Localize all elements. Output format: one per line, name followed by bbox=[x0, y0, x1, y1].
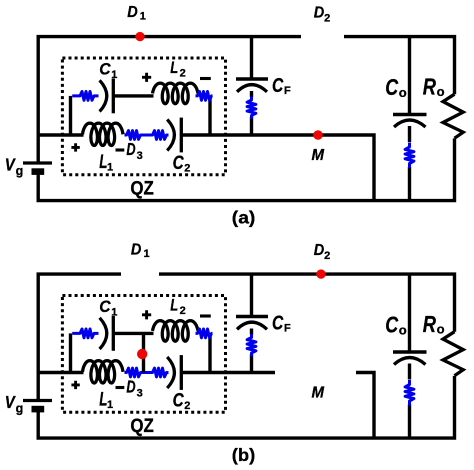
svg-text:o: o bbox=[437, 84, 445, 99]
svg-text:C: C bbox=[173, 153, 184, 174]
svg-text:o: o bbox=[399, 85, 407, 100]
svg-text:2: 2 bbox=[324, 13, 330, 25]
svg-text:D: D bbox=[314, 242, 325, 259]
svg-text:V: V bbox=[5, 154, 16, 174]
svg-text:C: C bbox=[272, 312, 284, 334]
svg-text:L: L bbox=[170, 296, 178, 315]
svg-text:F: F bbox=[284, 323, 291, 335]
svg-text:D: D bbox=[127, 4, 138, 21]
svg-text:3: 3 bbox=[137, 150, 143, 162]
svg-text:2: 2 bbox=[184, 400, 190, 412]
svg-text:D: D bbox=[314, 5, 325, 22]
svg-text:R: R bbox=[423, 73, 436, 99]
svg-text:2: 2 bbox=[180, 68, 186, 80]
svg-text:M: M bbox=[312, 385, 325, 402]
svg-text:(a): (a) bbox=[232, 208, 256, 228]
svg-text:L: L bbox=[170, 58, 178, 77]
svg-text:g: g bbox=[16, 164, 24, 178]
svg-text:D: D bbox=[126, 139, 135, 159]
svg-text:o: o bbox=[399, 322, 407, 337]
svg-text:1: 1 bbox=[107, 399, 113, 411]
svg-text:D: D bbox=[131, 242, 142, 259]
svg-text:QZ: QZ bbox=[130, 416, 154, 437]
svg-text:1: 1 bbox=[107, 161, 113, 173]
svg-text:C: C bbox=[99, 59, 111, 78]
svg-text:C: C bbox=[385, 74, 398, 100]
svg-text:F: F bbox=[284, 85, 291, 97]
svg-text:1: 1 bbox=[144, 248, 150, 260]
svg-text:2: 2 bbox=[184, 163, 190, 175]
svg-text:M: M bbox=[312, 147, 325, 164]
svg-text:2: 2 bbox=[180, 305, 186, 317]
svg-text:D: D bbox=[126, 377, 135, 397]
svg-text:1: 1 bbox=[111, 307, 117, 319]
svg-text:V: V bbox=[5, 392, 16, 412]
svg-text:2: 2 bbox=[324, 250, 330, 262]
svg-text:C: C bbox=[173, 391, 184, 412]
svg-text:(b): (b) bbox=[232, 445, 256, 465]
svg-text:C: C bbox=[99, 297, 111, 316]
svg-text:C: C bbox=[272, 75, 284, 97]
svg-text:C: C bbox=[385, 311, 398, 337]
svg-text:o: o bbox=[437, 321, 445, 336]
svg-text:R: R bbox=[423, 311, 436, 337]
svg-text:1: 1 bbox=[140, 10, 146, 22]
svg-text:3: 3 bbox=[137, 388, 143, 400]
svg-text:g: g bbox=[16, 402, 24, 416]
svg-text:QZ: QZ bbox=[130, 179, 154, 200]
svg-text:1: 1 bbox=[111, 69, 117, 81]
